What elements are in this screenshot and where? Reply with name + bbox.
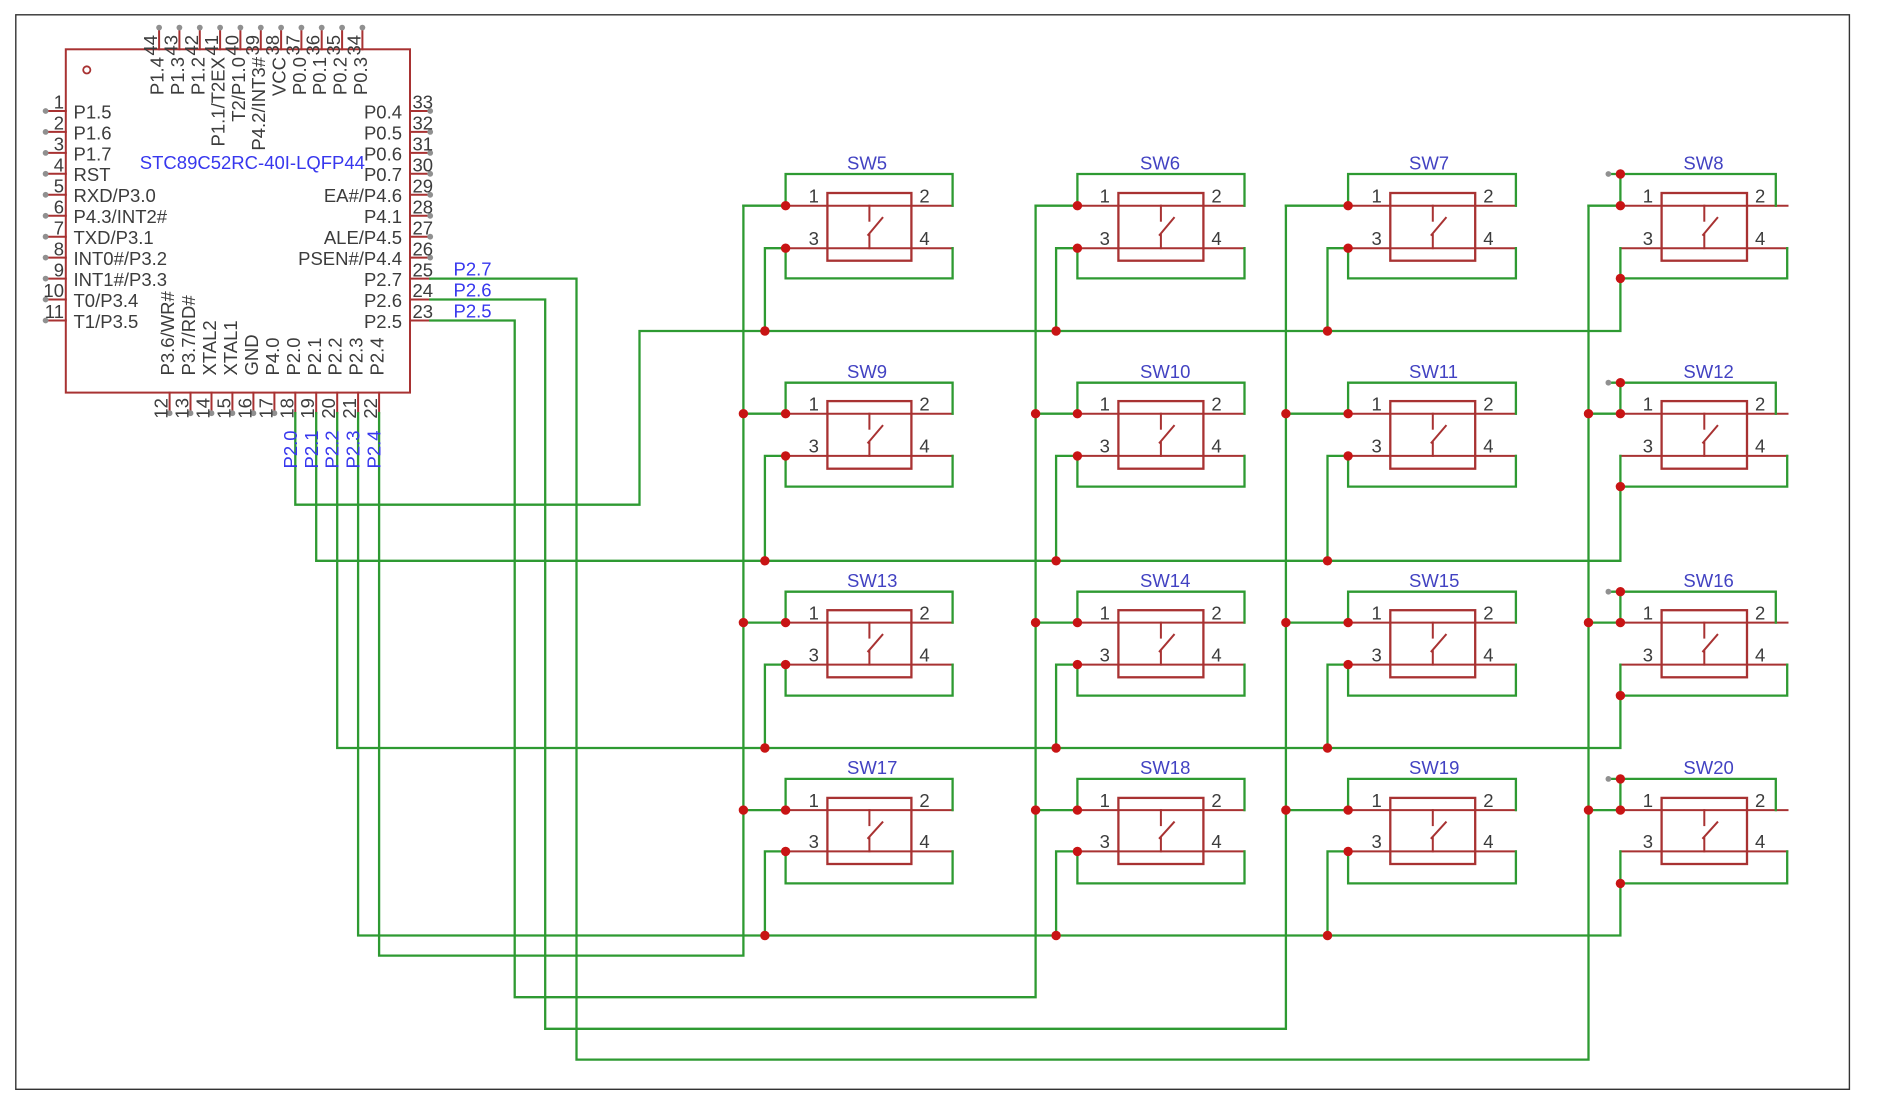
wire SW15 pin3-pin4 bottom loop	[1348, 665, 1516, 696]
svg-text:P1.7: P1.7	[74, 143, 112, 164]
wire SW14 pin1 to column	[1036, 621, 1078, 623]
junction SW10 column tap	[1031, 409, 1040, 418]
junction SW18 pin1	[1073, 805, 1082, 814]
junction SW8 bottom loop / row-bus	[1616, 274, 1625, 283]
svg-text:1: 1	[1643, 602, 1653, 623]
U1 pin 12 (P3.6/WR#)	[151, 290, 179, 418]
wire SW19 pin1 to column	[1286, 809, 1348, 811]
svg-text:P0.4: P0.4	[364, 101, 402, 122]
svg-text:31: 31	[413, 134, 434, 155]
svg-text:SW15: SW15	[1409, 570, 1459, 591]
wire SW11 pin1-pin2 top loop	[1348, 383, 1516, 414]
svg-text:3: 3	[1372, 228, 1382, 249]
switch SW18	[1077, 757, 1244, 864]
wire SW19 pin3-pin4 bottom loop	[1348, 851, 1516, 883]
svg-text:P1.1/T2EX: P1.1/T2EX	[208, 57, 229, 146]
wire SW10 pin1 to column	[1036, 413, 1078, 415]
switch SW15	[1348, 570, 1516, 677]
junction SW5 row-bus tap	[760, 326, 769, 335]
svg-text:SW17: SW17	[847, 757, 897, 778]
wire net P2.1 row bus (row2 pins 3-4)	[316, 413, 1620, 561]
wire SW17 pin3 to row bus	[765, 851, 786, 935]
U1 pin 34 (P0.3)	[343, 25, 371, 95]
U1 pin 27 (ALE/P4.5)	[324, 217, 433, 248]
wire SW18 pin3 to row bus	[1056, 851, 1077, 935]
junction SW19 pin1	[1343, 805, 1352, 814]
svg-text:2: 2	[1755, 186, 1765, 207]
junction SW6 row-bus tap	[1051, 326, 1060, 335]
svg-text:2: 2	[1211, 790, 1221, 811]
net label P2.1 (vertical)	[301, 430, 322, 468]
U1 pin 20 (P2.2)	[318, 337, 346, 418]
junction SW20 pin1	[1616, 805, 1625, 814]
wire SW20 pin1-pin2 top loop	[1608, 779, 1775, 810]
svg-text:P0.5: P0.5	[364, 122, 402, 143]
svg-text:3: 3	[1643, 228, 1653, 249]
junction SW5 pin1	[781, 201, 790, 210]
svg-text:SW19: SW19	[1409, 757, 1459, 778]
junction SW9 pin3	[781, 451, 790, 460]
wire SW5 pin1 to column	[743, 205, 785, 207]
IC U1 part name label	[140, 152, 365, 173]
junction SW13 pin1	[781, 618, 790, 627]
junction SW15 pin3	[1343, 660, 1352, 669]
wire SW5 pin3-pin4 bottom loop	[786, 248, 953, 278]
U1 pin 4 (RST)	[43, 155, 111, 186]
junction SW12 bottom loop / row-bus	[1616, 482, 1625, 491]
U1 pin 32 (P0.5)	[364, 113, 433, 144]
net label P2.6	[454, 279, 492, 300]
net label P2.2 (vertical)	[322, 430, 343, 468]
svg-text:4: 4	[1755, 436, 1765, 457]
svg-text:SW13: SW13	[847, 570, 897, 591]
svg-text:P4.2/INT3#: P4.2/INT3#	[248, 56, 269, 150]
svg-text:11: 11	[45, 301, 64, 322]
svg-text:SW8: SW8	[1683, 153, 1723, 174]
wire SW17 pin1 to column	[743, 809, 785, 811]
U1 pin 15 (XTAL1)	[213, 320, 241, 418]
svg-text:13: 13	[172, 398, 193, 419]
junction SW13 row-bus tap	[760, 743, 769, 752]
svg-text:4: 4	[1755, 228, 1765, 249]
svg-text:P0.6: P0.6	[364, 143, 402, 164]
wire SW12 pin3-pin4 bottom loop	[1620, 456, 1787, 487]
wire SW5 pin1-pin2 top loop	[786, 174, 953, 206]
junction SW10 pin3	[1073, 451, 1082, 460]
junction SW7 pin3	[1343, 244, 1352, 253]
U1 pin 35 (P0.2)	[323, 25, 351, 95]
svg-text:P0.2: P0.2	[330, 57, 351, 95]
switch SW9	[786, 361, 953, 469]
svg-text:4: 4	[919, 228, 929, 249]
svg-text:4: 4	[919, 831, 929, 852]
svg-text:SW5: SW5	[847, 153, 887, 174]
svg-text:3: 3	[809, 644, 819, 665]
svg-text:1: 1	[1643, 790, 1653, 811]
U1 pin 16 (GND)	[234, 334, 262, 418]
svg-text:3: 3	[1100, 831, 1110, 852]
switch SW7	[1348, 153, 1516, 261]
wire SW15 pin1-pin2 top loop	[1348, 592, 1516, 623]
switch SW8	[1620, 153, 1787, 261]
junction SW6 pin3	[1073, 244, 1082, 253]
junction SW16 bottom loop / row-bus	[1616, 691, 1625, 700]
wire SW17 pin3-pin4 bottom loop	[786, 851, 953, 883]
junction SW16 pin1	[1616, 618, 1625, 627]
wire SW19 pin1-pin2 top loop	[1348, 779, 1516, 810]
svg-text:4: 4	[1483, 644, 1493, 665]
svg-text:1: 1	[1100, 790, 1110, 811]
wire net P2.2 row bus (row3 pins 3-4)	[337, 413, 1620, 748]
junction SW10 pin1	[1073, 409, 1082, 418]
wire SW9 pin3-pin4 bottom loop	[786, 456, 953, 487]
svg-text:4: 4	[1755, 644, 1765, 665]
wire SW10 pin1-pin2 top loop	[1077, 383, 1244, 414]
wire SW20 pin3-pin4 bottom loop	[1620, 851, 1787, 883]
IC U1 pin-1 marker	[83, 66, 90, 73]
junction SW12 column tap	[1584, 409, 1593, 418]
U1 pin 21 (P2.3)	[339, 337, 367, 418]
svg-text:RST: RST	[74, 164, 111, 185]
svg-text:T1/P3.5: T1/P3.5	[74, 311, 139, 332]
svg-text:4: 4	[1211, 228, 1221, 249]
junction SW19 pin3	[1343, 847, 1352, 856]
svg-text:XTAL2: XTAL2	[199, 320, 220, 375]
svg-text:33: 33	[413, 92, 434, 113]
wire SW7 pin3 to row bus	[1328, 248, 1349, 331]
U1 pin 39 (P4.2/INT3#)	[242, 25, 269, 151]
svg-text:2: 2	[1211, 186, 1221, 207]
wire SW17 pin1-pin2 top loop	[786, 779, 953, 810]
svg-text:SW16: SW16	[1683, 570, 1733, 591]
svg-text:P2.2: P2.2	[322, 430, 343, 468]
svg-text:16: 16	[234, 398, 255, 419]
svg-text:SW9: SW9	[847, 361, 887, 382]
svg-text:26: 26	[413, 238, 434, 259]
svg-text:32: 32	[413, 113, 434, 134]
svg-text:3: 3	[1372, 436, 1382, 457]
svg-text:3: 3	[809, 436, 819, 457]
junction SW9 column tap	[739, 409, 748, 418]
wire SW12 top loop to pin1 leg	[1619, 383, 1621, 414]
svg-text:P2.5: P2.5	[364, 311, 402, 332]
junction SW9 row-bus tap	[760, 556, 769, 565]
wire SW13 pin3-pin4 bottom loop	[786, 665, 953, 696]
svg-text:3: 3	[1100, 228, 1110, 249]
svg-text:4: 4	[919, 436, 929, 457]
svg-text:3: 3	[1643, 831, 1653, 852]
svg-text:P2.2: P2.2	[325, 337, 346, 375]
switch SW14	[1077, 570, 1244, 677]
wire SW9 pin1-pin2 top loop	[786, 383, 953, 414]
svg-text:P1.3: P1.3	[167, 57, 188, 95]
svg-text:4: 4	[919, 644, 929, 665]
svg-text:2: 2	[919, 394, 929, 415]
svg-text:1: 1	[1643, 186, 1653, 207]
svg-text:EA#/P4.6: EA#/P4.6	[324, 185, 402, 206]
junction SW15 pin1	[1343, 618, 1352, 627]
junction SW15 column tap	[1281, 618, 1290, 627]
junction SW18 row-bus tap	[1051, 931, 1060, 940]
svg-text:4: 4	[1211, 644, 1221, 665]
svg-text:TXD/P3.1: TXD/P3.1	[74, 227, 154, 248]
wire SW11 pin3 to row bus	[1328, 456, 1349, 561]
svg-text:2: 2	[919, 602, 929, 623]
svg-text:INT1#/P3.3: INT1#/P3.3	[74, 269, 168, 290]
wire SW14 pin3 to row bus	[1056, 665, 1077, 748]
svg-text:P0.1: P0.1	[309, 57, 330, 95]
wire SW16 top loop to pin1 leg	[1619, 592, 1621, 623]
svg-text:12: 12	[151, 398, 172, 419]
U1 pin 23 (P2.5)	[364, 301, 433, 332]
junction SW8 pin1	[1616, 201, 1625, 210]
junction SW13 column tap	[739, 618, 748, 627]
svg-text:P0.3: P0.3	[350, 57, 371, 95]
switch SW6	[1077, 153, 1244, 261]
junction SW14 row-bus tap	[1051, 743, 1060, 752]
junction SW14 pin3	[1073, 660, 1082, 669]
svg-text:27: 27	[413, 217, 434, 238]
svg-text:3: 3	[54, 134, 64, 155]
svg-text:1: 1	[1372, 602, 1382, 623]
U1 pin 22 (P2.4)	[360, 337, 388, 418]
wire SW10 pin3 to row bus	[1056, 456, 1077, 561]
svg-text:2: 2	[1483, 394, 1493, 415]
junction SW11 column tap	[1281, 409, 1290, 418]
svg-text:3: 3	[1643, 644, 1653, 665]
wire SW15 pin1 to column	[1286, 621, 1348, 623]
U1 pin 31 (P0.6)	[364, 134, 433, 165]
U1 pin 25 (P2.7)	[364, 259, 433, 290]
wire SW7 pin3-pin4 bottom loop	[1348, 248, 1516, 278]
wire SW14 pin1-pin2 top loop	[1077, 592, 1244, 623]
switch SW16	[1620, 570, 1787, 677]
svg-text:42: 42	[181, 35, 202, 56]
U1 pin 11 (T1/P3.5)	[43, 301, 139, 332]
junction SW18 pin3	[1073, 847, 1082, 856]
svg-text:41: 41	[201, 35, 222, 56]
svg-text:3: 3	[1643, 436, 1653, 457]
junction SW18 column tap	[1031, 805, 1040, 814]
svg-text:P3.6/WR#: P3.6/WR#	[157, 290, 178, 375]
U1 pin 2 (P1.6)	[43, 113, 112, 144]
svg-text:P2.0: P2.0	[283, 337, 304, 375]
U1 pin 19 (P2.1)	[297, 337, 325, 418]
wire SW16 pin1-pin2 top loop	[1608, 592, 1775, 623]
U1 pin 18 (P2.0)	[276, 337, 304, 418]
svg-text:40: 40	[221, 35, 242, 56]
svg-text:INT0#/P3.2: INT0#/P3.2	[74, 248, 168, 269]
svg-text:VCC: VCC	[269, 57, 290, 96]
svg-text:34: 34	[343, 35, 364, 56]
wire SW6 pin3 to row bus	[1056, 248, 1077, 331]
junction SW14 pin1	[1073, 618, 1082, 627]
U1 pin 5 (RXD/P3.0)	[43, 176, 156, 207]
wire SW13 pin1-pin2 top loop	[786, 592, 953, 623]
svg-text:3: 3	[809, 831, 819, 852]
svg-text:37: 37	[282, 35, 303, 56]
switch SW19	[1348, 757, 1516, 864]
svg-text:2: 2	[1483, 186, 1493, 207]
wire net P2.7 column (SW8/12/16/20 pins 1-2)	[430, 206, 1588, 1060]
svg-text:T2/P1.0: T2/P1.0	[228, 57, 249, 122]
svg-text:2: 2	[1755, 790, 1765, 811]
U1 pin 29 (EA#/P4.6)	[324, 176, 433, 207]
svg-text:1: 1	[1643, 394, 1653, 415]
junction SW15 row-bus tap	[1323, 743, 1332, 752]
svg-text:P2.6: P2.6	[364, 290, 402, 311]
svg-text:P2.1: P2.1	[301, 430, 322, 468]
svg-text:P2.7: P2.7	[454, 258, 492, 279]
switch SW11	[1348, 361, 1516, 469]
svg-text:P3.7/RD#: P3.7/RD#	[178, 295, 199, 376]
stub end marker SW16	[1606, 589, 1612, 595]
junction SW7 row-bus tap	[1323, 326, 1332, 335]
switch SW12	[1620, 361, 1787, 469]
U1 pin 3 (P1.7)	[43, 134, 112, 165]
svg-text:3: 3	[1100, 644, 1110, 665]
wire SW10 pin3-pin4 bottom loop	[1077, 456, 1244, 487]
svg-text:6: 6	[54, 196, 64, 217]
wire SW15 pin3 to row bus	[1328, 665, 1349, 748]
svg-text:1: 1	[809, 186, 819, 207]
U1 pin 38 (VCC)	[262, 25, 290, 96]
U1 pin 33 (P0.4)	[364, 92, 433, 123]
svg-text:9: 9	[54, 259, 64, 280]
wire SW6 pin1 to column	[1036, 205, 1078, 207]
stub end marker SW20	[1606, 776, 1612, 782]
svg-text:P4.3/INT2#: P4.3/INT2#	[74, 206, 168, 227]
wire SW12 pin1 to column	[1589, 413, 1621, 415]
wire SW19 pin3 to row bus	[1328, 851, 1349, 935]
junction SW5 pin3	[781, 244, 790, 253]
svg-text:P1.2: P1.2	[187, 57, 208, 95]
U1 pin 7 (TXD/P3.1)	[43, 217, 154, 248]
junction SW16 top loop	[1616, 587, 1625, 596]
wire net P2.5 column (SW6/10/14/18 pins 1-2)	[430, 206, 1035, 998]
stub end marker SW8	[1606, 171, 1612, 177]
wire SW20 pin1 to column	[1589, 809, 1621, 811]
switch SW5	[786, 153, 953, 261]
svg-text:SW7: SW7	[1409, 153, 1449, 174]
wire net P2.4 column (SW5/9/13/17 pins 1-2)	[379, 206, 743, 956]
wire SW8 pin1 to column	[1589, 205, 1621, 207]
svg-text:SW6: SW6	[1140, 153, 1180, 174]
wire SW5 pin3 to row bus	[765, 248, 786, 331]
svg-text:P2.5: P2.5	[454, 300, 492, 321]
svg-text:2: 2	[1755, 602, 1765, 623]
svg-text:2: 2	[1483, 790, 1493, 811]
wire SW11 pin3-pin4 bottom loop	[1348, 456, 1516, 487]
U1 pin 41 (P1.1/T2EX)	[201, 25, 229, 147]
wire net P2.6 column (SW7/11/15/19 pins 1-2)	[430, 206, 1286, 1029]
junction SW11 pin1	[1343, 409, 1352, 418]
svg-text:SW14: SW14	[1140, 570, 1190, 591]
junction SW10 row-bus tap	[1051, 556, 1060, 565]
svg-text:4: 4	[1211, 436, 1221, 457]
svg-text:2: 2	[1483, 602, 1493, 623]
svg-text:SW10: SW10	[1140, 361, 1190, 382]
svg-text:P2.4: P2.4	[364, 430, 385, 468]
svg-text:SW12: SW12	[1683, 361, 1733, 382]
junction SW20 bottom loop / row-bus	[1616, 879, 1625, 888]
U1 pin 13 (P3.7/RD#)	[172, 295, 200, 419]
svg-text:14: 14	[193, 398, 214, 419]
net label P2.3 (vertical)	[343, 430, 364, 468]
wire SW6 pin3-pin4 bottom loop	[1077, 248, 1244, 278]
svg-text:17: 17	[255, 398, 276, 419]
svg-text:P2.3: P2.3	[346, 337, 367, 375]
svg-text:15: 15	[213, 398, 234, 419]
wire SW9 pin3 to row bus	[765, 456, 786, 561]
switch SW17	[786, 757, 953, 864]
svg-text:P2.0: P2.0	[280, 430, 301, 468]
U1 pin 28 (P4.1)	[364, 196, 433, 227]
svg-text:P2.6: P2.6	[454, 279, 492, 300]
svg-text:38: 38	[262, 35, 283, 56]
svg-text:36: 36	[303, 35, 324, 56]
wire SW12 pin1-pin2 top loop	[1608, 383, 1775, 414]
svg-text:P4.0: P4.0	[262, 337, 283, 375]
junction SW17 column tap	[739, 805, 748, 814]
svg-text:SW20: SW20	[1683, 757, 1733, 778]
wire net P2.0 row bus (row1 pins 3-4)	[295, 278, 1620, 504]
U1 pin 6 (P4.3/INT2#)	[43, 196, 168, 227]
junction SW19 column tap	[1281, 805, 1290, 814]
U1 pin 40 (T2/P1.0)	[221, 25, 249, 122]
U1 pin 30 (P0.7)	[364, 155, 433, 186]
wire SW8 pin1-pin2 top loop	[1608, 174, 1775, 206]
svg-text:1: 1	[809, 394, 819, 415]
U1 pin 1 (P1.5)	[43, 92, 112, 123]
U1 pin 8 (INT0#/P3.2)	[43, 238, 167, 269]
U1 pin 10 (T0/P3.4)	[43, 280, 139, 311]
svg-text:4: 4	[54, 155, 64, 176]
svg-text:P2.3: P2.3	[343, 430, 364, 468]
net label P2.7	[454, 258, 492, 279]
junction SW8 top loop	[1616, 169, 1625, 178]
U1 pin 36 (P0.1)	[303, 25, 331, 95]
svg-text:1: 1	[1100, 602, 1110, 623]
svg-text:1: 1	[1372, 790, 1382, 811]
junction SW17 row-bus tap	[760, 931, 769, 940]
net label P2.0 (vertical)	[280, 430, 301, 468]
svg-text:23: 23	[413, 301, 434, 322]
svg-text:8: 8	[54, 238, 64, 259]
junction SW11 pin3	[1343, 451, 1352, 460]
wire net P2.3 row bus (row4 pins 3-4)	[358, 413, 1620, 935]
svg-text:4: 4	[1211, 831, 1221, 852]
svg-text:5: 5	[54, 176, 64, 197]
svg-text:2: 2	[1211, 394, 1221, 415]
junction SW9 pin1	[781, 409, 790, 418]
net label P2.4 (vertical)	[364, 430, 385, 468]
svg-text:P1.4: P1.4	[147, 57, 168, 95]
wire SW14 pin3-pin4 bottom loop	[1077, 665, 1244, 696]
svg-text:SW18: SW18	[1140, 757, 1190, 778]
wire SW13 pin1 to column	[743, 621, 785, 623]
svg-text:28: 28	[413, 196, 434, 217]
U1 pin 26 (PSEN#/P4.4)	[298, 238, 433, 269]
U1 pin 44 (P1.4)	[140, 25, 168, 95]
svg-text:2: 2	[919, 186, 929, 207]
svg-text:1: 1	[54, 92, 64, 113]
switch SW20	[1620, 757, 1787, 864]
svg-text:SW11: SW11	[1409, 361, 1458, 382]
U1 pin 37 (P0.0)	[282, 25, 310, 95]
U1 pin 17 (P4.0)	[255, 337, 283, 418]
wire SW8 pin3-pin4 bottom loop	[1620, 248, 1787, 278]
